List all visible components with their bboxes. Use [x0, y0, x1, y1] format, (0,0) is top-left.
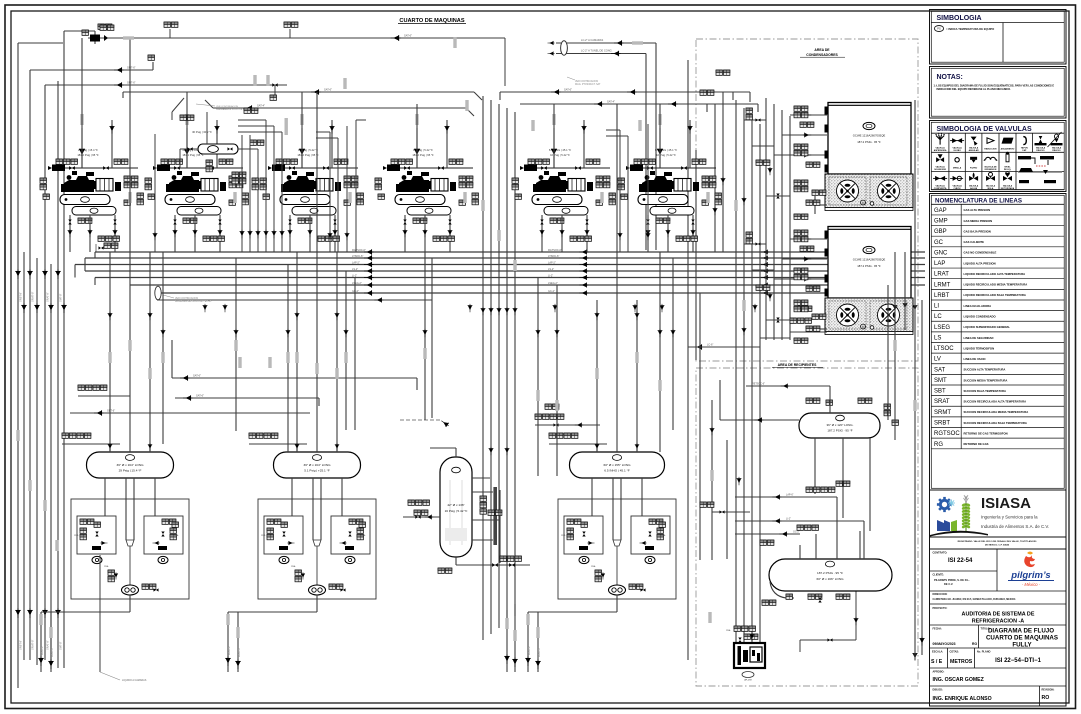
- flow arrow bus y264.5 repeat: [579, 262, 588, 267]
- svg-text:S / E: S / E: [931, 659, 943, 665]
- svg-text:16 Psig | 5.42 °F: 16 Psig | 5.42 °F: [445, 509, 468, 513]
- tag rack mid-left y388: [78, 395, 130, 397]
- flow arrow y300: [374, 297, 383, 302]
- tags below compressor x572: [570, 236, 591, 241]
- svg-text:RELEVO: RELEVO: [1036, 150, 1045, 152]
- riser arrow x205 right: [214, 125, 219, 134]
- drop arrows x617: [525, 656, 530, 666]
- pipe LC A CAMARAS y43: [556, 43, 656, 250]
- economizer bundle arrows: [240, 230, 245, 239]
- pipe SAT y92 right segment: [500, 92, 733, 100]
- pipe condenser loop vertical x774: [773, 104, 775, 340]
- svg-text:pilgrim’s: pilgrim’s: [1010, 570, 1050, 581]
- svg-text:SAT-6": SAT-6": [404, 34, 412, 38]
- extra gray ticks scattered: [161, 352, 164, 363]
- title block dibujo revision row: [1039, 686, 1041, 706]
- svg-text:DIBUJO:: DIBUJO:: [933, 689, 943, 692]
- bundle bottom extensions: [507, 604, 515, 672]
- svg-text:SAT-6": SAT-6": [324, 88, 332, 92]
- title block fecha titulo row: [930, 647, 1067, 649]
- svg-text:LC-2" A TUNEL DE CONG.: LC-2" A TUNEL DE CONG.: [581, 49, 613, 53]
- svg-text:CONTRATO:: CONTRATO:: [933, 552, 948, 555]
- pipe left vertical x64: [63, 31, 65, 668]
- vertical vessel level column: [472, 487, 497, 545]
- svg-text:SMT: SMT: [934, 378, 947, 384]
- svg-text:LIQUIDO TERMOSIFON: LIQUIDO TERMOSIFON: [964, 346, 995, 350]
- arrows right piping: [710, 427, 715, 435]
- condenser outlet line: [688, 346, 760, 348]
- vertical vessel top piping: [430, 448, 490, 478]
- flow arrow bus y258 right: [761, 256, 769, 261]
- condenser EC-2 label: [853, 258, 886, 269]
- condenser EC-2 fan right: [878, 304, 900, 326]
- svg-text:LRAT-3": LRAT-3": [50, 647, 54, 657]
- line nomenclature row RGTSOC: [931, 431, 1064, 438]
- valve symbol: globo: [950, 138, 964, 143]
- svg-text:DIAG. PTOS/DUCT. SAT: DIAG. PTOS/DUCT. SAT: [575, 83, 601, 86]
- svg-text:SMT-6": SMT-6": [127, 81, 136, 85]
- riser with tag at x170: [169, 29, 171, 38]
- valve symbol row2: filtro: [970, 157, 977, 163]
- svg-text:SAT-6": SAT-6": [196, 394, 204, 398]
- pipe bus LAP-2" y264.5: [75, 264, 925, 266]
- LC stub arrow left lower: [548, 51, 555, 55]
- drop arrows of compressor x435: [403, 229, 408, 237]
- pipe bundle vertical x499: [498, 104, 500, 628]
- discharge drops of compressor x320: [290, 215, 335, 252]
- drop arrows of compressor x100: [68, 229, 73, 237]
- compressor C205 body: [166, 171, 226, 192]
- drop valves of compressor x205: [173, 219, 176, 224]
- suction manifold valve block x100: [48, 165, 65, 172]
- note ver continuacion techo: [163, 295, 212, 303]
- riser arrow x572 right: [581, 125, 586, 134]
- tags under vessel x572: [550, 218, 564, 223]
- gray tick riser x435: [415, 114, 418, 125]
- flow arrow y92 x633: [627, 89, 637, 94]
- pipe GC-2" y534: [735, 533, 800, 535]
- riser pair to condensers x750: [733, 92, 750, 102]
- economizer bundle verticals: [242, 120, 282, 252]
- assembly3 upper valves: [553, 423, 558, 426]
- svg-text:LIQUIDO CONDENSADO: LIQUIDO CONDENSADO: [964, 315, 997, 319]
- recipiente2 legs from headers: [816, 497, 864, 559]
- condenser tag column upper: [794, 106, 808, 118]
- svg-text:PROYECTO:: PROYECTO:: [933, 607, 948, 610]
- pump tags x317: [329, 584, 343, 589]
- line nomenclature row SRMT: [931, 410, 1064, 417]
- line nomenclature row LRBT: [931, 293, 1064, 300]
- compressor package at x678 tags upper: [634, 159, 655, 164]
- svg-text:LINEA IGUALADORA: LINEA IGUALADORA: [964, 304, 992, 308]
- condenser EC-2 casing: [825, 227, 912, 299]
- compressor package at x678 suction valves: [647, 166, 653, 170]
- svg-text:RETSOC-6": RETSOC-6": [752, 383, 765, 386]
- sidebar panel NOTAS box: [930, 67, 1067, 119]
- svg-text:ING. ENRIQUE ALONSO: ING. ENRIQUE ALONSO: [933, 696, 992, 702]
- svg-text:SBT-6": SBT-6": [107, 409, 115, 413]
- svg-text:SUCCION RECIRCULADA MEDIA TEMP: SUCCION RECIRCULADA MEDIA TEMPERATURA: [964, 410, 1029, 414]
- recipiente1 inlet pipe: [720, 380, 799, 420]
- svg-text:PBA: PBA: [291, 565, 296, 568]
- svg-text:GNC: GNC: [934, 250, 948, 256]
- flow arrow bus y277.5: [364, 275, 374, 280]
- riser of compressor x205 left: [186, 128, 188, 168]
- tags left of compressor x435: [375, 178, 381, 190]
- flow arrow SAT-6 y38: [391, 35, 401, 41]
- tags under vessel x205: [183, 218, 197, 223]
- pipe condenser feed vertical x744: [743, 108, 745, 650]
- pipe x597 to vessel3: [596, 300, 598, 452]
- compressor package at x205 tags upper: [161, 159, 182, 164]
- valve symbol: angular: [971, 137, 978, 146]
- valve symbol: reduccion: [987, 138, 994, 144]
- pipe y300 partial: [157, 293, 432, 300]
- svg-text:GAS BAJA PRESION: GAS BAJA PRESION: [964, 229, 991, 233]
- condenser tag column lower: [794, 230, 808, 242]
- label AREA DE RECIPIENTES: [772, 363, 823, 367]
- svg-text:CHECK: CHECK: [954, 188, 962, 190]
- tags under vessel x678: [656, 218, 670, 223]
- svg-text:GC: GC: [934, 240, 944, 246]
- flow arrow bus y258 repeat: [579, 255, 588, 260]
- address bar: [930, 537, 1067, 549]
- flow arrow condenser stub y239: [803, 237, 811, 242]
- pipe x317 to vessel2: [316, 92, 318, 452]
- economizer bundle horizontals: [238, 120, 282, 149]
- line nomenclature row SRBT: [931, 421, 1064, 428]
- flow arrow bus y285 right: [761, 283, 769, 288]
- svg-text:RETORNO DE GAS: RETORNO DE GAS: [964, 442, 989, 446]
- compressor package at x435 suction line: [389, 167, 473, 169]
- recipiente2 bottom tags: [808, 594, 822, 599]
- arrows bundle 715: [713, 207, 718, 215]
- riser of compressor x100 right: [111, 120, 113, 168]
- svg-text:GLOBO: GLOBO: [953, 150, 961, 152]
- svg-text:VER CONTINUACION: VER CONTINUACION: [175, 297, 198, 300]
- svg-text:42" Ø x 136": 42" Ø x 136": [447, 503, 464, 507]
- oil reservoir vessel of compressor x435: [407, 207, 451, 216]
- economizer bundle tags: [244, 108, 258, 113]
- suction manifold valve block x320: [268, 165, 285, 172]
- svg-text:COTAS:: COTAS:: [950, 651, 960, 654]
- riser of compressor x205 right: [216, 120, 218, 168]
- riser arrow x320 left: [299, 147, 305, 158]
- drop valves of compressor x678: [646, 219, 649, 224]
- riser arrow x678 right: [687, 125, 692, 134]
- pump box left x130: [77, 516, 116, 554]
- recipientes tag row above LAP: [806, 487, 835, 492]
- compressor C678 body: [639, 171, 699, 192]
- svg-text:LAP-2": LAP-2": [548, 261, 556, 264]
- svg-text:NOMENCLATURA DE LINEAS: NOMENCLATURA DE LINEAS: [935, 197, 1022, 204]
- pipe left vertical x30: [29, 70, 31, 660]
- valve symbol: aislamiento: [1002, 138, 1014, 144]
- svg-text:CUARTO DE MAQUINAS: CUARTO DE MAQUINAS: [399, 18, 464, 24]
- svg-text:LRAT: LRAT: [934, 272, 949, 278]
- pump box left x617: [564, 516, 603, 554]
- pipe condenser feed vertical x760: [759, 124, 761, 650]
- svg-text:GAP: GAP: [934, 208, 947, 214]
- condenser zone extra tags: [746, 108, 752, 120]
- AP unit valves above: [738, 637, 741, 642]
- pipe x130 to vessel1: [129, 38, 131, 452]
- svg-text:LSEG: LSEG: [934, 325, 950, 331]
- compressor package at x572 tags upper: [528, 159, 549, 164]
- valve symbol: tapon: [1023, 137, 1026, 145]
- svg-text:NOTAS:: NOTAS:: [937, 74, 963, 81]
- svg-text:CLIENTE:: CLIENTE:: [933, 574, 945, 577]
- line nomenclature row GNC: [931, 250, 1064, 257]
- arrow right vertical x922: [919, 637, 924, 646]
- pipe SAT y92 left segment: [123, 92, 482, 100]
- tags under vessel x100: [78, 218, 92, 223]
- gray ticks drop x317: [226, 614, 229, 625]
- compressor package at x572 suction line: [526, 167, 610, 169]
- cluster1 riser connects: [81, 38, 83, 168]
- svg-text:DIAGRAMA DE FLUJO DE TECHO: DIAGRAMA DE FLUJO DE TECHO: [175, 300, 212, 303]
- tank vessel 60" Ø x 155" LONG at x617: [570, 452, 665, 478]
- compressor package at x100 suction line: [54, 167, 138, 169]
- compressor package at x435 tags upper: [391, 159, 412, 164]
- tags below compressor x100: [98, 236, 119, 241]
- flow arrow y398: [183, 395, 193, 400]
- svg-text:LI-2": LI-2": [548, 274, 553, 277]
- oil separator vessel of compressor x205: [165, 195, 215, 205]
- svg-text:FULLY: FULLY: [1012, 642, 1032, 649]
- pilgrims logo: [1008, 552, 1054, 588]
- condenser side piping upper: [790, 196, 827, 332]
- flow arrow bus y285: [364, 282, 374, 287]
- economizer tall gray tick: [285, 118, 288, 135]
- upper between-cluster stubs: [316, 120, 628, 138]
- assembly3 upper tag manifold: [535, 424, 600, 426]
- riser of compressor x100 left: [81, 128, 83, 168]
- pipe x297 to vessel2: [296, 252, 298, 452]
- flow arrow y104 x600: [594, 101, 604, 106]
- tag pair x88 y30: [82, 30, 88, 35]
- continuation oval x158 y293: [155, 286, 161, 300]
- drop arrows x130: [38, 656, 43, 666]
- svg-text:REFRIGERACION -A: REFRIGERACION -A: [972, 619, 1025, 625]
- pipe SAT-6 top run y38: [88, 38, 505, 86]
- svg-text:AUDITORIA DE SISTEMA DE: AUDITORIA DE SISTEMA DE: [962, 612, 1035, 618]
- flow arrow bus y271 repeat: [579, 268, 588, 273]
- recipiente2 drop arrow: [854, 617, 859, 625]
- title block aprobo row: [930, 685, 1067, 687]
- svg-text:LI-2": LI-2": [786, 517, 791, 520]
- pipe stub into condenser y259: [782, 258, 827, 260]
- pipe bundle vertical x515: [514, 112, 516, 616]
- flow arrow on vertical x45 lower: [42, 608, 47, 618]
- pipe RETSOC y386: [746, 386, 830, 413]
- oil separator vessel of compressor x435: [395, 195, 445, 205]
- bottom drop arrows far right: [912, 652, 917, 661]
- pipe LAP-6" y497: [735, 496, 837, 498]
- bottom-left liquid note: [100, 555, 147, 682]
- flow arrow on vertical x45 upper: [42, 269, 47, 279]
- svg-text:M: M: [862, 201, 865, 205]
- tank vessel 36" Ø x 164" LONG at x130: [87, 452, 174, 478]
- riser arrow x435 left: [414, 147, 420, 158]
- svg-text:LC-2" A CAMARAS: LC-2" A CAMARAS: [581, 38, 604, 42]
- flow arrow y85: [114, 82, 124, 87]
- compressor C572 body: [533, 171, 593, 192]
- line nomenclature row SMT: [931, 378, 1064, 385]
- riser pair to condensers x758: [707, 104, 758, 112]
- svg-text:INDICACION DEL EQUIPO REFIERAS: INDICACION DEL EQUIPO REFIERASE AL PLANO…: [937, 88, 1012, 91]
- pump box right x130: [144, 516, 183, 554]
- compressor package at x205 label: [182, 148, 204, 157]
- level tag rack above vessel x317: [249, 443, 307, 445]
- riser of compressor x435 right: [446, 120, 448, 168]
- riser of compressor x320 right: [331, 120, 333, 168]
- line nomenclature row LS: [931, 335, 1064, 342]
- pipe left vertical x24: [23, 252, 25, 660]
- gray ticks on feeds: [128, 340, 131, 351]
- svg-text:SAT-6": SAT-6": [564, 88, 572, 92]
- svg-text:6.5 INHG | 45.1 °F: 6.5 INHG | 45.1 °F: [604, 469, 630, 473]
- svg-text:LIQUIDO RECIRCULADO BAJA TEMPE: LIQUIDO RECIRCULADO BAJA TEMPERATURA: [964, 293, 1026, 297]
- line nomenclature row LRMT: [931, 282, 1064, 289]
- pump right internals x130: [162, 519, 176, 524]
- discharge drops of compressor x678: [648, 215, 693, 252]
- tags below compressor x435: [433, 236, 454, 241]
- condenser-left zone tag columns dense: [794, 180, 808, 192]
- condenser bottom outlet arrow: [694, 344, 704, 349]
- svg-text:187.2 PSIG ∙ 95 °F: 187.2 PSIG ∙ 95 °F: [827, 429, 852, 433]
- svg-text:MIRILLA: MIRILLA: [953, 167, 962, 170]
- pipe SAT y398: [175, 398, 319, 406]
- flow arrow condenser stub y279: [803, 277, 811, 282]
- pipe LI-2" y521: [735, 520, 864, 522]
- svg-text:REGISTRADO: VALLE DEL 2DO 9 DE: REGISTRADO: VALLE DEL 2DO 9 DE CEDALLI D…: [958, 540, 1037, 543]
- svg-text:LAP: LAP: [934, 261, 945, 267]
- svg-text:GAS MEDIA PRESION: GAS MEDIA PRESION: [964, 219, 993, 223]
- tags right of compressor x678: [702, 176, 716, 188]
- svg-text:PILGRIM'S PRIDE, S. DE R.L.: PILGRIM'S PRIDE, S. DE R.L.: [934, 578, 970, 582]
- vertical vessel bottom tags: [438, 568, 452, 573]
- svg-text:PBA: PBA: [726, 629, 731, 632]
- economizer vessel: [180, 112, 238, 168]
- svg-text:LIQUIDO A CAMARAS: LIQUIDO A CAMARAS: [122, 679, 147, 682]
- svg-text:36" Ø x 164" LONG: 36" Ø x 164" LONG: [304, 463, 332, 467]
- svg-text:VER CONTINUACION: VER CONTINUACION: [575, 80, 598, 83]
- tags right of compressor x572: [596, 176, 610, 188]
- svg-text:AISLAMIENTO: AISLAMIENTO: [1001, 148, 1015, 151]
- flow arrow bus y264.5 right: [761, 262, 769, 267]
- pipe bus LSEG-2" y285: [130, 284, 925, 286]
- svg-text:GC-2": GC-2": [793, 530, 800, 533]
- svg-text:SRBT: SRBT: [934, 421, 950, 427]
- pipe condenser loop vertical x782: [781, 110, 783, 340]
- flow arrow bus y252: [364, 249, 374, 254]
- condenser EC-2 fan left: [837, 304, 859, 326]
- discharge drops of compressor x572: [542, 215, 587, 252]
- drop arrows of compressor x678: [646, 229, 651, 237]
- vertical vessel right piping: [472, 490, 500, 563]
- pipe left vertical x37: [36, 258, 38, 665]
- svg-text:187.2 PSIG ∙ 95 °F: 187.2 PSIG ∙ 95 °F: [857, 264, 881, 268]
- pipe stub into condenser y155: [774, 154, 827, 156]
- svg-text:LI: LI: [934, 304, 939, 310]
- recipiente1 inlet arrow: [754, 417, 763, 422]
- svg-text:PBA: PBA: [661, 534, 666, 537]
- flow arrow bus y264.5: [364, 262, 374, 267]
- svg-text:LC: LC: [934, 314, 942, 320]
- vertical vessel 42in: [440, 457, 472, 557]
- flow arrow on vertical x58 upper: [55, 269, 60, 279]
- title block contrato row: [930, 549, 1067, 706]
- bundle verticals x715 x723: [715, 92, 723, 252]
- recipiente1 top tags: [806, 398, 820, 403]
- svg-text:SIMBOLOGIA: SIMBOLOGIA: [937, 15, 982, 22]
- riser arrow x320 right: [329, 125, 334, 134]
- compressor package at x100 label: [77, 148, 99, 157]
- discharge drop pipes x617: [528, 595, 617, 672]
- valve symbol row3: valvula bola: [986, 172, 995, 181]
- oil reservoir vessel of compressor x572: [544, 207, 588, 216]
- tags left of compressor x205: [145, 178, 151, 190]
- pipe left vertical x45: [44, 85, 46, 660]
- arrow y386: [781, 384, 789, 389]
- svg-text:REDUCCION: REDUCCION: [984, 149, 997, 151]
- svg-text:LINEA DE SEGURIDAD: LINEA DE SEGURIDAD: [964, 336, 994, 340]
- svg-text:RO: RO: [972, 642, 977, 646]
- valve symbol grid lines: [931, 132, 1064, 134]
- arrow into vessel top: [440, 419, 450, 428]
- svg-text:LRAT-2": LRAT-2": [40, 645, 44, 655]
- svg-text:SMT-8": SMT-8": [59, 641, 63, 650]
- pump left internals x317: [267, 519, 281, 524]
- pipe stub into condenser y279: [774, 278, 827, 280]
- level tag rack above vessel x130: [62, 443, 120, 445]
- svg-text:36" Ø x 120" LONG.: 36" Ø x 120" LONG.: [827, 423, 854, 427]
- svg-text:GCWE 1216A2607005QE: GCWE 1216A2607005QE: [853, 258, 886, 262]
- svg-text:LS-2": LS-2": [548, 268, 554, 271]
- tags right of compressor x435: [459, 176, 473, 188]
- line nomenclature row GAP: [931, 208, 1064, 215]
- riser arrow x205 left: [184, 147, 190, 158]
- svg-text:LC-6": LC-6": [707, 344, 713, 347]
- pump tags x130: [142, 584, 156, 589]
- flow arrow y92 x317: [311, 89, 321, 94]
- gray ticks drop x617: [526, 614, 529, 625]
- right verticals x895 x915: [888, 100, 922, 660]
- mid verticals bus to vessels extra: [163, 252, 700, 476]
- valve symbol row2: mirilla: [955, 158, 959, 162]
- condenser EC-1 fan left: [837, 180, 859, 202]
- svg-text:GCWE 1216A2607005QE: GCWE 1216A2607005QE: [853, 134, 886, 138]
- level tag rack above vessel x617: [549, 443, 607, 445]
- gray tick on LC line: [632, 41, 643, 44]
- oil reservoir vessel of compressor x205: [177, 207, 221, 216]
- pipe condenser feed vertical x736: [735, 100, 737, 650]
- svg-text:SRAT-8": SRAT-8": [46, 640, 50, 650]
- flow arrow bus y271: [364, 268, 374, 273]
- pipe condenser loop vertical x766: [765, 98, 767, 340]
- svg-text:LSEG-2": LSEG-2": [548, 282, 558, 285]
- dashed line into vessel: [400, 419, 440, 421]
- compressor package at x320 suction valves: [289, 166, 295, 170]
- svg-text:RETORNO DE GAS TERMOSIFON: RETORNO DE GAS TERMOSIFON: [964, 431, 1008, 435]
- black manifold on SAT line start: [90, 35, 108, 42]
- svg-text:AGUJA: AGUJA: [970, 187, 978, 190]
- line nomenclature row SAT: [931, 367, 1064, 374]
- svg-text:LTSOC-6": LTSOC-6": [548, 255, 559, 258]
- riser of compressor x678 right: [689, 120, 691, 168]
- sidebar panel NOMENCLATURA DE LINEAS: [930, 194, 1067, 491]
